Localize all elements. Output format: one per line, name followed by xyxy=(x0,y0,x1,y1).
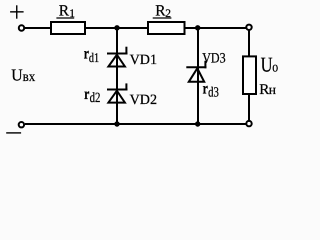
resistor R2 xyxy=(148,22,185,34)
svg-text:вх: вх xyxy=(23,69,36,85)
minus terminal sign xyxy=(6,132,21,134)
input terminal - (open circle) xyxy=(19,122,24,127)
svg-text:VD3: VD3 xyxy=(202,50,225,66)
wire output terminal down to RH xyxy=(248,30,250,57)
wire RH down to bottom terminal xyxy=(248,94,250,121)
svg-text:U: U xyxy=(11,65,22,84)
zener diode VD3 xyxy=(186,61,206,82)
resistor R1 xyxy=(51,22,85,34)
svg-text:н: н xyxy=(269,82,276,97)
wire VD1-VD2 branch vertical xyxy=(116,28,118,124)
svg-text:VD1: VD1 xyxy=(130,52,157,68)
wire VD3 branch vertical xyxy=(197,28,199,124)
output terminal + (open circle) xyxy=(246,25,251,30)
input terminal + (open circle) xyxy=(19,25,24,30)
node D (junction bottom of VD3 branch) xyxy=(195,121,200,126)
svg-text:r: r xyxy=(203,81,208,98)
node C (junction bottom of VD1 branch) xyxy=(114,121,119,126)
svg-text:d3: d3 xyxy=(208,85,219,100)
node A (junction top of VD1 branch) xyxy=(114,25,119,30)
bottom rail wire xyxy=(25,123,246,125)
plus terminal sign xyxy=(10,5,24,18)
zener diode VD2 xyxy=(107,83,128,102)
resistor RH (load) xyxy=(243,56,256,94)
svg-text:R: R xyxy=(59,2,70,19)
svg-text:VD2: VD2 xyxy=(130,92,157,108)
bottom output terminal - (open circle) xyxy=(246,121,251,126)
svg-text:d2: d2 xyxy=(90,91,101,106)
svg-text:U: U xyxy=(261,53,273,77)
wire terminal+ to R1 xyxy=(25,27,51,29)
wire R1 to R2 xyxy=(86,27,148,29)
node B (junction top of VD3 branch) xyxy=(195,25,200,30)
zener diode VD1 xyxy=(107,47,128,67)
svg-text:r: r xyxy=(84,86,89,103)
wire R2 to output terminal xyxy=(185,27,246,29)
svg-text:o: o xyxy=(272,60,278,76)
svg-text:d1: d1 xyxy=(89,50,99,65)
